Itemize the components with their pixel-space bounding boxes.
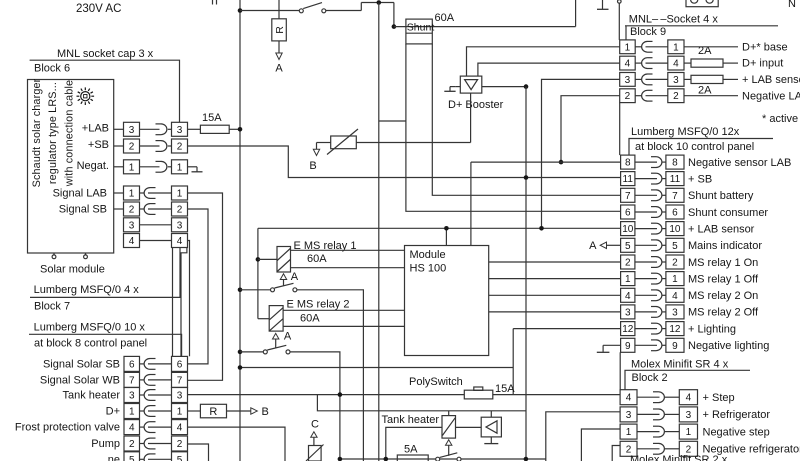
node junction switch 1 feed	[238, 288, 243, 293]
block 7 socket pin 4 right	[172, 234, 188, 248]
arrow A from resistor R	[275, 53, 283, 75]
svg-text:5A: 5A	[404, 443, 418, 455]
wire shunt right terminal to pin 7	[432, 44, 620, 195]
wire bottom rail	[340, 458, 546, 460]
wire switch2 output	[290, 352, 340, 461]
node junction bottom left	[338, 457, 343, 461]
relay K2 MS relay 2	[269, 306, 283, 332]
svg-text:1: 1	[177, 162, 183, 173]
node junction on bus	[238, 8, 243, 13]
ground negative lighting	[597, 345, 621, 352]
node junction fuse to bus	[238, 127, 243, 132]
label line block 9	[625, 25, 778, 27]
block 10 pin 5 left	[621, 238, 635, 252]
svg-text:Negative lighting: Negative lighting	[688, 340, 769, 352]
wire relay3 to buzzer	[456, 426, 482, 428]
wire lighting row to pin 12	[513, 328, 620, 330]
label C arrow	[311, 419, 319, 446]
wire lighting riser	[512, 329, 514, 395]
svg-text:4: 4	[626, 393, 632, 404]
block 10 connector symbol pin 6	[635, 207, 666, 218]
block 2 pin 2 left	[620, 441, 637, 456]
block 8 pin 5 right	[172, 452, 188, 461]
wire negative step feed	[581, 429, 620, 461]
svg-text:4: 4	[625, 291, 631, 302]
svg-text:2: 2	[673, 91, 679, 102]
svg-text:3: 3	[129, 391, 135, 402]
block 10 connector symbol pin 3	[635, 307, 666, 318]
svg-text:Signal Solar SB: Signal Solar SB	[43, 358, 120, 370]
block 10 pin 8 right	[666, 155, 684, 169]
block 10 pin 1 right	[666, 272, 684, 286]
block 8 connector symbol pin 5	[140, 454, 172, 461]
block 10 pin 1 left	[621, 272, 635, 286]
svg-text:6: 6	[177, 359, 183, 370]
wire AC feed drop	[575, 0, 577, 27]
block 10 pin 3 left	[621, 305, 635, 319]
wire to relay 2	[258, 318, 269, 320]
svg-text:15A: 15A	[495, 383, 515, 395]
block 9 pin 3 right	[668, 73, 684, 87]
block 8 connector symbol pin 2	[140, 438, 172, 449]
fuse 15A	[188, 125, 241, 133]
wire +SB to pin 11	[188, 146, 621, 178]
svg-text:Molex Minifit SR 2 x: Molex Minifit SR 2 x	[630, 454, 728, 461]
block 6 socket pin 2 left	[124, 139, 140, 153]
svg-text:A: A	[291, 271, 299, 283]
block 8 connector symbol pin 3	[140, 390, 172, 401]
wire booster ground	[444, 87, 460, 92]
svg-text:3: 3	[177, 125, 183, 136]
block 7 socket pin 2 left	[124, 202, 140, 216]
svg-text:2: 2	[129, 439, 135, 450]
block 10 pin 11 left	[621, 172, 635, 186]
svg-text:2A: 2A	[698, 84, 712, 96]
wire from switch to shunt branch	[326, 3, 394, 27]
block 8 pin 5 left	[124, 452, 140, 461]
block 8 pin 2 right	[172, 436, 188, 451]
wire module out pin1	[489, 278, 621, 280]
svg-text:1: 1	[686, 427, 692, 438]
svg-text:4: 4	[177, 236, 183, 247]
block 9 pin 1 right	[668, 40, 684, 54]
block 10 pin 10 left	[621, 222, 635, 236]
svg-text:5: 5	[177, 455, 183, 461]
arrow A mains indicator	[589, 240, 620, 252]
block 2 pin 4 right	[679, 390, 697, 405]
block 9 pin 2 left	[620, 89, 636, 103]
svg-text:1: 1	[177, 407, 183, 418]
svg-text:1: 1	[177, 189, 183, 200]
wire module top pin to negative line	[470, 162, 472, 245]
svg-text:+ LAB sensor: + LAB sensor	[688, 223, 755, 235]
svg-text:MS relay 2 On: MS relay 2 On	[688, 290, 758, 302]
svg-text:at block 8 control panel: at block 8 control panel	[34, 338, 147, 350]
svg-text:Negative sensor LAB: Negative sensor LAB	[688, 157, 791, 169]
block 10 connector symbol pin 7	[635, 190, 666, 201]
svg-text:4: 4	[673, 59, 679, 70]
svg-text:1: 1	[673, 42, 679, 53]
svg-text:Solar module: Solar module	[40, 264, 105, 276]
svg-text:MS relay 1 On: MS relay 1 On	[688, 257, 758, 269]
wire tank heater left branch	[386, 427, 442, 459]
wire bus379 to shunt branch	[379, 120, 406, 122]
svg-text:Tank heater: Tank heater	[382, 414, 440, 426]
block 10 pin 9 right	[666, 338, 684, 352]
label line block 10	[629, 139, 773, 156]
wire relay2 out bottom	[283, 325, 404, 327]
label line block 2	[625, 370, 750, 389]
svg-text:230V AC: 230V AC	[76, 3, 121, 15]
svg-text:Negative LAB: Negative LAB	[742, 90, 800, 102]
svg-text:D+* base: D+* base	[742, 41, 788, 53]
wire lighting feed	[240, 367, 513, 369]
wire block7 to block8 link a	[172, 248, 174, 357]
svg-text:Signal LAB: Signal LAB	[53, 188, 107, 200]
svg-text:4: 4	[672, 291, 678, 302]
svg-text:3: 3	[626, 410, 632, 421]
block 2 pin 4 left	[620, 390, 637, 405]
svg-text:60A: 60A	[307, 253, 327, 265]
block 10 connector symbol pin 10	[635, 223, 666, 234]
block 6 stub pin 2	[114, 145, 124, 147]
fuse 5A	[397, 455, 428, 461]
block 10 connector symbol pin 9	[635, 340, 666, 351]
block 8 pin 6 right	[172, 356, 188, 371]
resistor R2 on D+ line	[188, 404, 251, 418]
node junction at shunt input	[392, 24, 397, 29]
wire module out pin4	[489, 294, 621, 296]
wire negative refrigerator feed	[612, 446, 620, 461]
wire through shunt to AC drop	[394, 26, 576, 28]
block 10 pin 2 left	[621, 255, 635, 269]
block 6 connector symbol pin 2	[140, 141, 172, 152]
svg-text:+ Step: + Step	[703, 392, 735, 404]
svg-text:5: 5	[625, 241, 631, 252]
block 9 pin 1 left	[620, 40, 636, 54]
svg-text:MS relay 1 Off: MS relay 1 Off	[688, 273, 759, 285]
block 10 pin 8 left	[621, 155, 635, 169]
wire negative LAB	[684, 95, 738, 97]
svg-text:* active sig: * active sig	[762, 113, 800, 125]
block 8 connector symbol pin 4	[140, 422, 172, 433]
fuse 2A row 4	[684, 59, 738, 67]
svg-text:2: 2	[177, 205, 183, 216]
svg-text:Mains indicator: Mains indicator	[688, 240, 762, 252]
module HS 100	[405, 246, 489, 356]
wire module out pin3	[489, 311, 621, 313]
wire tank heater jog	[317, 395, 526, 411]
wire booster to D+ input pin 4	[478, 63, 620, 76]
svg-text:12: 12	[669, 324, 681, 335]
wire signal LAB bus	[188, 193, 223, 380]
wire module out pin2	[489, 261, 621, 263]
block 8 pin 1 right	[172, 404, 188, 419]
arrow B on D+ line	[251, 406, 269, 418]
svg-text:60A: 60A	[300, 313, 320, 325]
svg-text:11: 11	[623, 174, 634, 185]
label line block 7	[30, 247, 180, 297]
terminal circle and wire to block 9	[618, 0, 622, 40]
svg-text:2: 2	[129, 142, 135, 153]
svg-text:C: C	[311, 419, 319, 431]
block 2 pin 3 right	[679, 407, 697, 422]
ground negative pin block 6	[188, 167, 203, 172]
svg-text:Signal Solar WB: Signal Solar WB	[40, 374, 120, 386]
svg-text:Negat.: Negat.	[77, 160, 109, 172]
svg-text:3: 3	[625, 75, 631, 86]
svg-text:5: 5	[672, 241, 678, 252]
block 6 connector symbol pin 3	[140, 124, 172, 135]
wire to relay 1	[258, 258, 277, 260]
varistor RV1	[327, 129, 358, 155]
block 2 connector symbol pin 3	[637, 409, 679, 420]
block 8 pin 4 right	[172, 420, 188, 435]
svg-text:4: 4	[177, 423, 183, 434]
svg-text:7: 7	[672, 191, 678, 202]
svg-text:2: 2	[177, 142, 183, 153]
block 8 pin 7 left	[124, 372, 140, 387]
svg-text:9: 9	[625, 341, 631, 352]
node junction switch 2 feed	[238, 350, 243, 355]
svg-text:1: 1	[626, 427, 632, 438]
wire pump down	[188, 444, 209, 461]
svg-text:4: 4	[129, 236, 135, 247]
wire frost valve down	[188, 427, 286, 461]
block 8 pin 2 left	[124, 436, 140, 451]
block 7 link wire pin 4	[140, 240, 172, 242]
block 7 connector symbol pin 2	[140, 204, 172, 215]
svg-text:MS relay 2 Off: MS relay 2 Off	[688, 307, 759, 319]
wire switch1 output	[297, 290, 364, 461]
svg-text:3: 3	[129, 125, 135, 136]
svg-text:N: N	[788, 0, 796, 10]
block 8 pin 7 right	[172, 372, 188, 387]
D+ booster U1	[460, 76, 482, 93]
svg-text:2: 2	[625, 91, 631, 102]
block 10 pin 10 right	[666, 222, 684, 236]
svg-text:Shunt consumer: Shunt consumer	[688, 207, 768, 219]
block 9 pin 3 left	[620, 73, 636, 87]
buzzer with diode symbol	[481, 411, 501, 437]
block 2 connector symbol pin 2	[637, 443, 679, 454]
svg-text:E MS relay 2: E MS relay 2	[287, 299, 350, 311]
svg-text:MNL– –Socket 4 x: MNL– –Socket 4 x	[629, 14, 719, 26]
svg-text:R: R	[274, 26, 286, 34]
block 9 pin 4 right	[668, 56, 684, 70]
svg-text:7: 7	[129, 375, 135, 386]
resistor R top	[272, 0, 287, 53]
block 10 pin 11 right	[666, 172, 684, 186]
block 10 pin 4 right	[666, 288, 684, 302]
wire LAB sensor row	[258, 227, 621, 229]
svg-text:D+: D+	[106, 406, 120, 418]
wire block9 pin 2 negative drop	[561, 96, 620, 162]
block 10 pin 2 right	[666, 255, 684, 269]
svg-text:11: 11	[670, 174, 681, 185]
block 10 connector symbol pin 1	[635, 273, 666, 284]
svg-text:Lumberg MSFQ/0 12x: Lumberg MSFQ/0 12x	[631, 126, 740, 138]
wire booster output right	[482, 86, 526, 88]
relay K1 MS relay 1	[277, 247, 291, 273]
block 7 stub pin 2	[114, 208, 124, 210]
wire block7 pin4 link down	[188, 241, 190, 357]
block 7 socket pin 1 left	[124, 186, 140, 200]
wire negative sensor row	[471, 161, 621, 163]
relay 3 actuator arrow	[446, 440, 452, 456]
vertical bus wire x=526	[525, 87, 527, 459]
wire D+ base	[684, 46, 738, 48]
block 9 connector symbol pin 2	[635, 90, 668, 101]
block 9 connector symbol pin 4	[635, 58, 668, 69]
svg-text:A: A	[284, 331, 292, 343]
svg-text:B: B	[309, 160, 316, 172]
svg-text:Schaudt solar charger: Schaudt solar charger	[31, 78, 43, 187]
wire cut marks at top edge	[213, 0, 217, 5]
block 10 connector symbol pin 8	[635, 157, 666, 168]
svg-text:3: 3	[625, 307, 631, 318]
svg-text:Module: Module	[410, 249, 446, 261]
block 10 pin 4 left	[621, 288, 635, 302]
svg-text:PolySwitch: PolySwitch	[409, 376, 463, 388]
block 7 socket pin 2 right	[172, 202, 188, 216]
block 6 connector symbol pin 1	[140, 161, 172, 172]
svg-text:Block 9: Block 9	[630, 26, 666, 38]
node junction on +SB wire	[524, 175, 529, 180]
block 6 socket pin 1 right	[172, 160, 188, 174]
node junction relay 1 feed	[256, 257, 261, 262]
block 7 socket pin 3 left	[124, 218, 140, 232]
svg-text:7: 7	[625, 191, 631, 202]
block 8 pin 6 left	[124, 356, 140, 371]
block 6 stub pin 1	[114, 166, 124, 168]
switch of relay 2	[240, 345, 290, 354]
svg-text:6: 6	[129, 359, 135, 370]
wire module top pin to LAB sensor line	[445, 228, 447, 245]
wire to main switch	[240, 10, 299, 12]
block 7 socket pin 1 right	[172, 186, 188, 200]
svg-text:4: 4	[625, 59, 631, 70]
svg-text:Shunt: Shunt	[407, 22, 435, 34]
node junction sensor bus	[539, 226, 544, 231]
block 2 pin 1 right	[679, 424, 697, 439]
wire relay1 out bottom	[291, 267, 405, 269]
svg-text:10: 10	[622, 224, 634, 235]
svg-text:at block 10 control panel: at block 10 control panel	[635, 141, 754, 153]
block 9 pin 2 right	[668, 89, 684, 103]
svg-text:12: 12	[622, 324, 634, 335]
svg-text:Block 7: Block 7	[34, 301, 70, 313]
svg-text:10: 10	[669, 224, 681, 235]
block 9 pin 4 left	[620, 56, 636, 70]
svg-text:3: 3	[673, 75, 679, 86]
svg-text:Tank heater: Tank heater	[63, 390, 121, 402]
svg-text:A: A	[275, 63, 283, 75]
block 10 pin 7 left	[621, 188, 635, 202]
svg-text:5: 5	[129, 455, 135, 461]
block 10 pin 7 right	[666, 188, 684, 202]
svg-text:8: 8	[625, 158, 631, 169]
fuse row 3	[684, 75, 738, 83]
svg-text:B: B	[262, 406, 269, 418]
svg-text:with connection cable: with connection cable	[63, 80, 75, 187]
svg-text:1: 1	[129, 162, 135, 173]
block 10 pin 3 right	[666, 305, 684, 319]
shunt 60A	[406, 19, 434, 44]
polyswitch fuse	[188, 387, 621, 399]
block 7 socket pin 3 right	[172, 218, 188, 232]
svg-text:1: 1	[129, 189, 135, 200]
block 2 connector symbol pin 4	[637, 392, 679, 403]
svg-text:Pump: Pump	[91, 438, 120, 450]
block 6 stub pin 3	[114, 128, 124, 130]
wire relay2 out top	[283, 309, 404, 311]
svg-text:+ Lighting: + Lighting	[688, 323, 736, 335]
ground under buzzer	[484, 437, 498, 444]
tank heater relay K3	[442, 411, 456, 438]
block 8 connector symbol pin 7	[140, 375, 172, 386]
svg-text:Signal SB: Signal SB	[59, 204, 107, 216]
svg-text:1: 1	[625, 274, 631, 285]
relay 2 actuator arrow A	[273, 331, 292, 349]
block 7 socket pin 4 left	[124, 234, 140, 248]
block 7 stub pin 1	[114, 192, 124, 194]
node junction bottom tank branch	[384, 457, 389, 461]
node junction on negative sensor wire	[559, 160, 564, 165]
block 8 pin 1 left	[124, 404, 140, 419]
svg-text:Block 6: Block 6	[34, 63, 70, 75]
svg-text:+LAB: +LAB	[82, 122, 109, 134]
wire block7 to block8 link b	[181, 248, 187, 357]
node junction module top	[444, 226, 449, 231]
svg-text:60A: 60A	[435, 12, 455, 24]
wire booster to D+ base pin 1	[467, 47, 620, 76]
block 10 connector symbol pin 4	[635, 290, 666, 301]
block 7 connector symbol pin 1	[140, 188, 172, 199]
main switch S1	[299, 3, 326, 13]
svg-text:+ SB: + SB	[688, 173, 712, 185]
main positive bus wire	[239, 0, 241, 461]
relay 1 actuator arrow A	[280, 271, 298, 286]
svg-text:Shunt battery: Shunt battery	[688, 190, 754, 202]
svg-text:9: 9	[672, 341, 678, 352]
block 8 pin 3 right	[172, 388, 188, 403]
block 2 pin 2 right	[679, 441, 697, 456]
socket outlet 230V	[686, 0, 718, 7]
sun icon	[77, 87, 95, 105]
svg-text:2: 2	[625, 258, 631, 269]
wire refrigerator feed	[546, 412, 620, 461]
wire shunt left terminal to pin 6	[406, 44, 621, 211]
svg-text:3: 3	[672, 307, 678, 318]
svg-text:7: 7	[177, 375, 183, 386]
wire block 10 to block 2 link	[619, 352, 621, 389]
node junction bottom bus526	[524, 457, 529, 461]
svg-text:2: 2	[672, 258, 678, 269]
wire relay1 out top	[291, 249, 405, 251]
block 8 connector symbol pin 1	[140, 406, 172, 417]
svg-text:15A: 15A	[202, 112, 222, 124]
block 8 pin 4 left	[124, 420, 140, 435]
vertical bus wire x=379	[378, 3, 380, 461]
block 10 connector symbol pin 5	[635, 240, 666, 251]
svg-text:Lumberg MSFQ/0 10 x: Lumberg MSFQ/0 10 x	[34, 322, 146, 334]
svg-text:+ LAB sensor: + LAB sensor	[742, 74, 800, 86]
svg-text:2: 2	[177, 439, 183, 450]
svg-text:regulator type LRS...: regulator type LRS...	[47, 82, 59, 184]
wire signal SB bus	[188, 209, 209, 364]
svg-text:2: 2	[129, 205, 135, 216]
